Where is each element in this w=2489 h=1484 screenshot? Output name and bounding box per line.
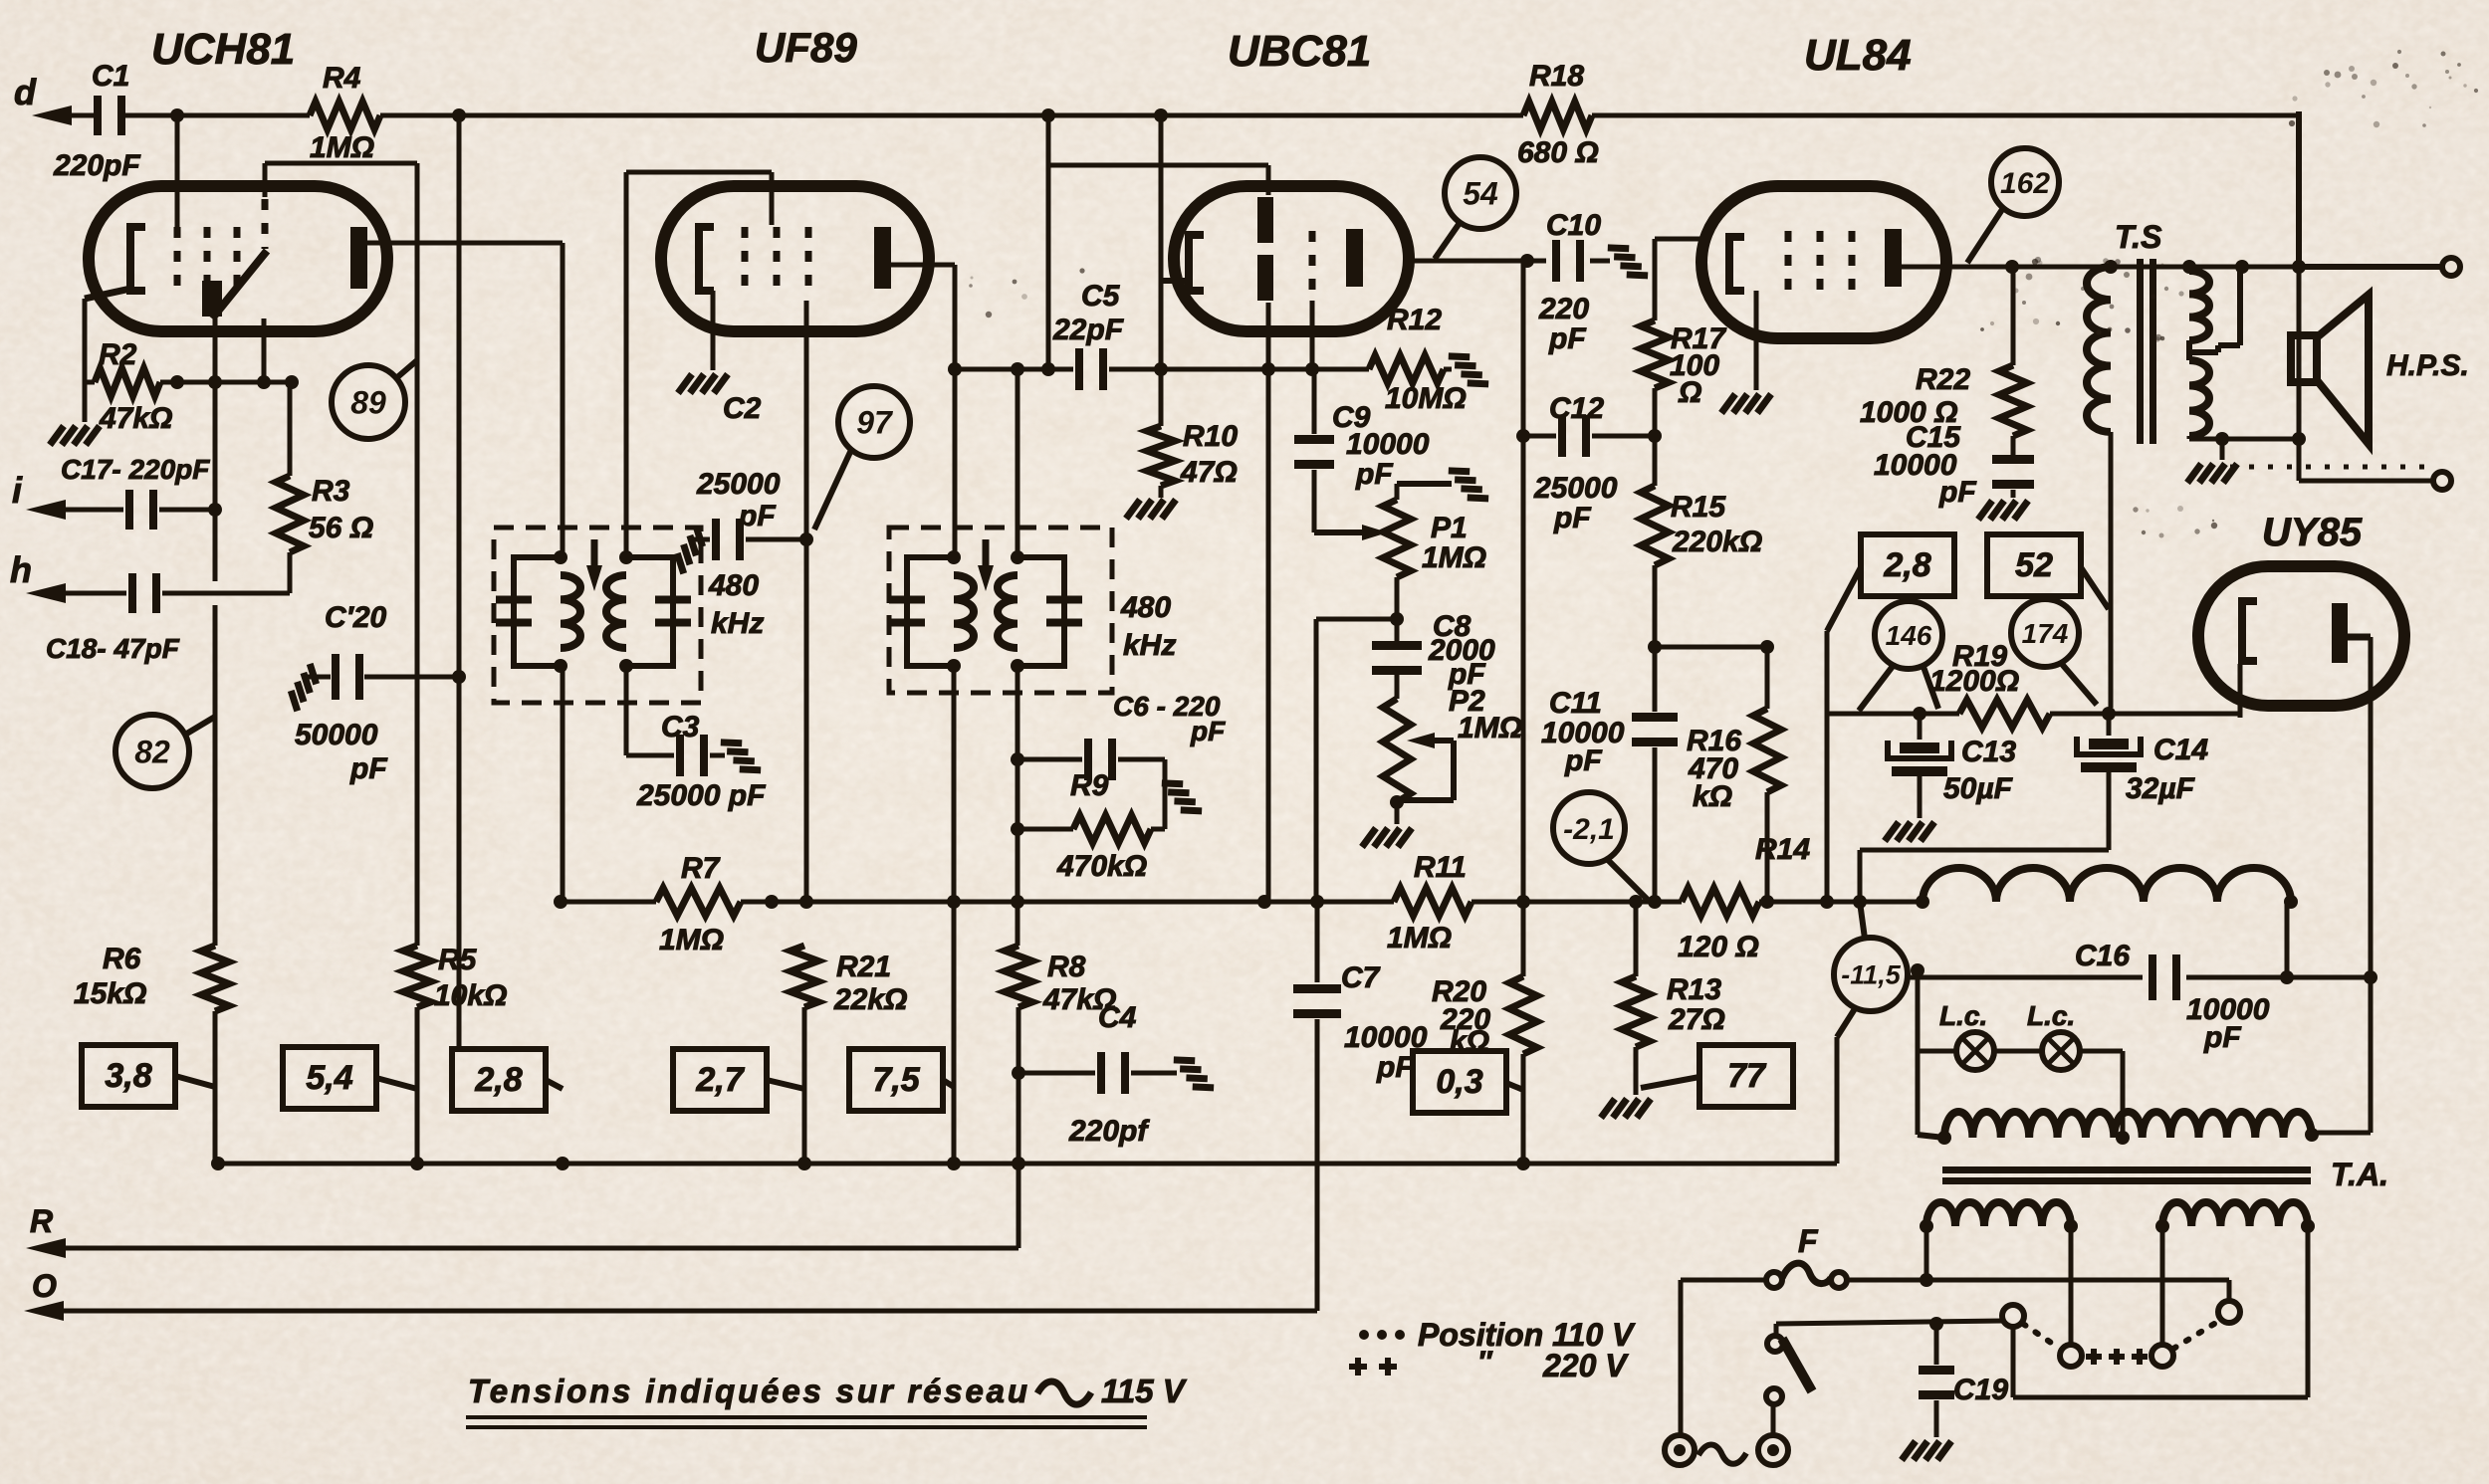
resistor R13 — [1634, 902, 1639, 976]
resistor R17 — [1641, 320, 1669, 388]
svg-text:22kΩ: 22kΩ — [833, 983, 907, 1016]
capacitor C10 — [1590, 259, 1610, 264]
resistor R15 — [1641, 486, 1669, 565]
svg-text:220: 220 — [1538, 293, 1589, 325]
wire diode top line — [1048, 163, 1268, 168]
wire UF89 g1 top line — [626, 170, 772, 175]
svg-text:7,5: 7,5 — [872, 1061, 920, 1099]
wire IF2 right column down — [1016, 369, 1020, 557]
voltage circle 97 — [838, 386, 910, 458]
svg-text:97: 97 — [856, 405, 894, 441]
resistor R21 — [791, 946, 818, 1007]
svg-text:3,8: 3,8 — [105, 1057, 151, 1095]
IF2 primary tuned circuit — [907, 557, 954, 666]
voltage box 5.4 — [283, 1047, 376, 1109]
tube UF89 internals — [699, 227, 714, 291]
capacitor C15 — [1992, 455, 2034, 464]
svg-text:480: 480 — [708, 569, 759, 602]
svg-text:56 Ω: 56 Ω — [309, 512, 373, 544]
svg-text:R4: R4 — [323, 62, 361, 95]
svg-text:470kΩ: 470kΩ — [1056, 850, 1147, 883]
dotted 110V alternative wire — [2230, 465, 2425, 470]
svg-text:pF: pF — [1190, 716, 1226, 746]
svg-text:-2,1: -2,1 — [1563, 813, 1615, 846]
wire IF1 left column continues — [561, 666, 566, 902]
capacitor C20 — [304, 675, 331, 680]
resistor R3 — [288, 382, 293, 476]
svg-text:1MΩ: 1MΩ — [659, 924, 724, 956]
T.A. core — [1942, 1166, 2311, 1173]
anode bar UBC81 — [1346, 229, 1363, 287]
resistor R2 — [85, 380, 95, 385]
voltage box 0.3 — [1413, 1051, 1506, 1113]
svg-text:5,4: 5,4 — [306, 1059, 352, 1097]
svg-text:27Ω: 27Ω — [1668, 1003, 1725, 1036]
svg-text:R12: R12 — [1387, 304, 1442, 336]
svg-text:R2: R2 — [99, 338, 137, 371]
svg-text:L.c.: L.c. — [1939, 1000, 1987, 1031]
svg-text:C17- 220pF: C17- 220pF — [61, 454, 210, 485]
resistor R14 — [1682, 888, 1759, 916]
voltage circle 174 — [2011, 599, 2079, 667]
capacitor C8 — [1372, 641, 1422, 650]
loudspeaker H.P.S. — [2297, 267, 2302, 439]
svg-text:h: h — [10, 549, 32, 590]
wire mains left drop — [1679, 1280, 1684, 1434]
voltage circle 89 — [332, 365, 405, 439]
switch lever — [1771, 1404, 1776, 1435]
svg-text:R5: R5 — [438, 944, 478, 976]
capacitor C19 — [1934, 1324, 1939, 1365]
svg-text:R8: R8 — [1047, 951, 1086, 983]
svg-text:C′20: C′20 — [325, 601, 387, 634]
resistor R7 — [656, 888, 741, 916]
wire terminal line right — [2296, 111, 2302, 267]
svg-text:C14: C14 — [2153, 734, 2208, 766]
half-ground R12 right — [1449, 346, 1488, 393]
resistor R22 — [1999, 365, 2027, 436]
voltage box 2.8 right — [1861, 534, 1954, 596]
svg-text:120 Ω: 120 Ω — [1678, 931, 1759, 963]
svg-text:O: O — [32, 1268, 57, 1304]
wire UL84 anode line — [1902, 265, 2111, 270]
wire cathode lead — [85, 289, 130, 299]
wire anode UCH81 to IF1 — [367, 241, 563, 246]
voltage selector circle 2 — [2069, 1226, 2074, 1345]
resistor R4 — [310, 102, 380, 129]
ground below R2 — [50, 426, 100, 445]
svg-text:220 V: 220 V — [1542, 1348, 1629, 1383]
wire IF2 left column continues to bus — [952, 666, 957, 1164]
svg-text:1200Ω: 1200Ω — [1929, 665, 2019, 698]
capacitor C7 column — [1315, 902, 1320, 982]
wire C14 bottom to heater node — [1860, 848, 2109, 853]
potentiometer P1 — [1383, 500, 1411, 577]
svg-text:pF: pF — [1548, 322, 1586, 355]
voltage circle 162 — [1991, 148, 2059, 216]
IF transformer 2 dashed box — [889, 528, 1112, 693]
voltage circle 54 — [1445, 157, 1516, 229]
svg-text:R11: R11 — [1414, 851, 1467, 884]
svg-text:R14: R14 — [1755, 833, 1810, 866]
voltage box 7.5 — [849, 1049, 943, 1111]
svg-text:10MΩ: 10MΩ — [1385, 382, 1467, 415]
svg-text:C1: C1 — [92, 60, 129, 93]
wire heater column x216 — [213, 318, 218, 581]
resistor R8 — [1005, 946, 1032, 1007]
arrow h output — [26, 583, 66, 603]
svg-text:R3: R3 — [312, 475, 350, 508]
svg-text:kΩ: kΩ — [1693, 780, 1732, 813]
svg-text:R6: R6 — [103, 943, 141, 975]
wire P1 bottom node — [1395, 577, 1400, 643]
capacitor C2 — [692, 537, 710, 542]
svg-text:Ω: Ω — [1678, 376, 1701, 409]
svg-text:1MΩ: 1MΩ — [1458, 712, 1522, 744]
svg-text:1MΩ: 1MΩ — [310, 131, 374, 164]
T.S. secondary — [2187, 267, 2192, 271]
resistor R6 — [201, 946, 229, 1011]
tube UBC81 envelope — [1174, 186, 1409, 331]
capacitor C14 electrolytic — [2107, 714, 2112, 736]
svg-text:89: 89 — [350, 385, 386, 421]
svg-text:2,8: 2,8 — [1883, 546, 1930, 584]
svg-text:50000: 50000 — [295, 719, 378, 751]
legend plus — [1349, 1364, 1367, 1370]
capacitor C5 — [1075, 348, 1083, 390]
ground below R10 — [1126, 500, 1176, 519]
voltage box 77 — [1699, 1045, 1793, 1107]
resistor R16 — [1753, 709, 1781, 792]
capacitor C16 line — [1906, 975, 2143, 980]
wire lamps column — [1916, 970, 1921, 1135]
tube UCH81 internals — [130, 227, 145, 291]
svg-text:174: 174 — [2022, 618, 2069, 649]
svg-text:pF: pF — [738, 500, 776, 532]
wire R19 line y717 — [1827, 712, 1959, 717]
selector dotted links — [2023, 1324, 2060, 1349]
tube UY85 internals — [2242, 601, 2257, 661]
svg-text:kHz: kHz — [1123, 629, 1176, 662]
wire heater/AGC line y906 — [561, 900, 656, 905]
svg-text:77: 77 — [1727, 1057, 1767, 1095]
ground below C15 — [1978, 501, 2028, 520]
wire UY85 anode down to R19 line — [2238, 664, 2243, 718]
svg-text:146: 146 — [1886, 620, 1932, 651]
IF2 secondary tuned circuit — [1018, 557, 1064, 666]
T.A. secondary right — [2162, 1202, 2308, 1226]
svg-text:F: F — [1798, 1223, 1819, 1259]
wire B+ bottom bus y1169 — [218, 1162, 1837, 1166]
selector plus marks — [2086, 1354, 2102, 1360]
ground below C13 — [1885, 822, 1934, 841]
capacitor C12 line — [1521, 261, 1526, 902]
svg-text:R: R — [30, 1203, 53, 1239]
half-ground R9/C6 — [1162, 773, 1202, 820]
svg-text:2,7: 2,7 — [695, 1061, 745, 1099]
resistor R2 — [95, 368, 160, 396]
svg-text:pF: pF — [349, 752, 387, 785]
resistor R10 — [1147, 426, 1175, 486]
wire lamps to T.A. — [2080, 1049, 2123, 1054]
wire switch to selector line — [1774, 1324, 1779, 1337]
wire UY85 cathode down to C16 line — [2346, 634, 2371, 641]
filter choke coil — [1923, 868, 2291, 902]
svg-text:C5: C5 — [1081, 280, 1121, 313]
svg-text:220pF: 220pF — [53, 149, 140, 182]
svg-text:C4: C4 — [1098, 1001, 1137, 1034]
anode bar UF89 — [874, 227, 891, 289]
svg-text:25000 pF: 25000 pF — [636, 779, 766, 812]
resistor R12 — [1369, 355, 1444, 383]
T.S. core — [2137, 259, 2144, 444]
tube UY85 envelope — [2198, 566, 2404, 706]
svg-text:R9: R9 — [1070, 769, 1109, 802]
ground below C19 — [1902, 1441, 1951, 1460]
svg-text:680 Ω: 680 Ω — [1517, 136, 1599, 169]
svg-text:220pf: 220pf — [1068, 1115, 1150, 1148]
tube UF89 envelope — [661, 186, 929, 331]
ground UL84 cathode — [1721, 394, 1771, 413]
print speckles — [2022, 301, 2026, 305]
arrow d — [32, 106, 72, 125]
svg-text:UL84: UL84 — [1804, 31, 1912, 80]
node line y650 — [1655, 645, 1767, 650]
svg-text:R18: R18 — [1529, 60, 1584, 93]
legend dots — [1359, 1330, 1369, 1340]
svg-text:T.A.: T.A. — [2331, 1157, 2388, 1192]
svg-text:UCH81: UCH81 — [151, 25, 295, 74]
svg-text:H.P.S.: H.P.S. — [2386, 349, 2469, 382]
wire top B+ bus — [68, 113, 98, 118]
svg-text:pF: pF — [1938, 476, 1976, 509]
svg-text:P1: P1 — [1431, 512, 1468, 544]
ground T.S. secondary — [2187, 464, 2237, 483]
half-ground C2 left — [670, 527, 710, 573]
anode bar UCH81 — [350, 227, 367, 289]
svg-text:R22: R22 — [1916, 363, 1970, 396]
svg-text:C10: C10 — [1546, 209, 1601, 242]
terminal circle 1 — [2442, 258, 2460, 276]
voltage circle -11.5 — [1834, 938, 1908, 1011]
resistor R15 — [1653, 436, 1658, 486]
voltage box 3.8 — [82, 1045, 175, 1107]
wire UF89 g2 column x810 — [804, 301, 809, 902]
wire UF89 anode — [891, 263, 955, 268]
half-ground P1 top — [1449, 461, 1488, 508]
resistor R16 — [1765, 647, 1770, 709]
IF1 secondary tuned circuit — [626, 557, 673, 666]
svg-text:54: 54 — [1463, 176, 1498, 212]
IF1 primary tuned circuit — [514, 557, 561, 666]
T.S. primary coil — [2087, 267, 2111, 432]
svg-text:UY85: UY85 — [2262, 511, 2363, 554]
wire -11.5 to bottom bus — [1837, 1007, 1856, 1037]
wire R4 right drop x461 — [457, 115, 462, 1049]
IF2 tuning arrow — [983, 539, 990, 577]
wire secondary bottom — [2187, 436, 2192, 439]
IF transformer 1 dashed box — [494, 528, 701, 703]
wire UL84 grid jog — [1655, 237, 1708, 242]
ground below R13 — [1601, 1099, 1651, 1118]
tube UL84 envelope — [1701, 186, 1946, 338]
resistor R18 — [1523, 102, 1592, 129]
tube UL84 internals — [1729, 237, 1744, 291]
resistor R3 — [276, 476, 304, 552]
wire IF1 right column to C3 — [624, 666, 629, 755]
svg-text:C12: C12 — [1549, 392, 1604, 425]
anode bar UL84 — [1885, 229, 1902, 287]
half-ground C3 right — [721, 733, 761, 779]
svg-text:1MΩ: 1MΩ — [1387, 922, 1452, 954]
svg-text:10000: 10000 — [1346, 428, 1430, 461]
wire UL84 cathode ground — [1754, 291, 1759, 390]
wire grid2 top line — [265, 161, 417, 166]
svg-text:″: ″ — [1477, 1346, 1493, 1378]
svg-text:C3: C3 — [661, 711, 700, 743]
svg-text:R13: R13 — [1667, 973, 1721, 1006]
capacitor C9 column — [1312, 369, 1317, 434]
wire UBC81 left column x1166 (R10) — [1159, 115, 1164, 426]
svg-text:10kΩ: 10kΩ — [434, 979, 507, 1012]
resistor R13 — [1622, 976, 1650, 1047]
svg-text:82: 82 — [134, 735, 170, 770]
resistor R11 — [1394, 888, 1471, 916]
svg-text:pF: pF — [1564, 744, 1602, 777]
voltage box 2.7 — [673, 1049, 767, 1111]
voltage circle 82 — [115, 715, 189, 788]
arrow R output — [26, 1238, 66, 1258]
svg-text:pF: pF — [1553, 502, 1591, 534]
wire to terminal 2 — [2297, 439, 2302, 481]
svg-text:-11,5: -11,5 — [1841, 960, 1902, 990]
resistor R5 — [415, 163, 420, 946]
node top-bus junctions — [170, 108, 184, 122]
capacitor C11 — [1653, 647, 1658, 712]
ground UF89 cathode — [678, 374, 728, 393]
wire triode grid drop — [262, 318, 267, 382]
voltage selector circle 3 — [2160, 1226, 2165, 1345]
svg-text:R7: R7 — [681, 852, 721, 885]
resistor R20 — [1509, 976, 1537, 1054]
svg-text:C13: C13 — [1961, 736, 2016, 768]
mains plug terminal 1 — [1665, 1435, 1695, 1465]
svg-text:R10: R10 — [1183, 420, 1238, 453]
voltage selector circle 1 — [2002, 1305, 2024, 1327]
wire grid column down to AGC line — [1266, 369, 1271, 902]
ground below R2 — [83, 382, 88, 422]
svg-text:10000: 10000 — [1344, 1021, 1428, 1054]
svg-text:C7: C7 — [1341, 961, 1381, 994]
voltage box 2.8 — [452, 1049, 546, 1111]
wire left secondary to fuse line — [1924, 1226, 1929, 1280]
ground below P2 — [1362, 828, 1412, 847]
wire UF89 cathode to ground — [711, 291, 716, 370]
wire grid/cathode bottom leads — [1266, 303, 1271, 369]
wire grid1 drop from C1 node — [175, 115, 180, 234]
terminal circle 2 — [2433, 472, 2451, 490]
svg-text:R21: R21 — [836, 951, 891, 983]
svg-text:C19: C19 — [1953, 1374, 2008, 1406]
svg-text:2,8: 2,8 — [474, 1061, 522, 1099]
svg-text:i: i — [12, 470, 23, 511]
voltage circle -2.1 — [1553, 792, 1625, 864]
svg-text:C11: C11 — [1549, 687, 1602, 720]
svg-text:15kΩ: 15kΩ — [74, 977, 146, 1010]
mains plug terminal 2 — [1758, 1435, 1788, 1465]
tube UCH81 envelope — [89, 186, 387, 331]
svg-text:47Ω: 47Ω — [1180, 456, 1238, 489]
wire UY85 cathode to T.A. primary — [2369, 977, 2374, 1133]
svg-text:480: 480 — [1120, 591, 1171, 624]
resistor R9 — [1073, 815, 1151, 843]
resistor R9 — [1018, 827, 1073, 832]
svg-text:R15: R15 — [1671, 491, 1726, 524]
tube UBC81 internals — [1189, 235, 1204, 291]
wire right secondary right end loop — [2306, 1226, 2311, 1397]
svg-text:C18- 47pF: C18- 47pF — [46, 633, 180, 664]
IF1 tuning arrow — [591, 539, 598, 577]
svg-text:C16: C16 — [2075, 940, 2130, 972]
wire UBC81 anode line — [1409, 259, 1546, 264]
svg-text:47kΩ: 47kΩ — [99, 402, 172, 435]
triode grid diagonal — [212, 251, 267, 318]
svg-text:22pF: 22pF — [1052, 314, 1124, 346]
svg-text:25000: 25000 — [1533, 472, 1618, 505]
voltage circle 146 — [1875, 601, 1942, 669]
resistor R5 — [403, 946, 431, 1007]
potentiometer P2 — [1383, 699, 1411, 802]
svg-text:kΩ: kΩ — [1450, 1025, 1489, 1058]
svg-text:pF: pF — [2203, 1021, 2241, 1054]
capacitor C6 — [1018, 757, 1082, 762]
svg-text:d: d — [14, 72, 37, 112]
svg-text:25000: 25000 — [696, 468, 781, 501]
resistor R22 — [2011, 267, 2016, 365]
svg-text:0,3: 0,3 — [1436, 1063, 1482, 1101]
transformer T.A. primary coil — [1944, 1112, 2312, 1138]
arrow O output — [24, 1301, 64, 1321]
capacitor C4 — [1018, 1071, 1095, 1076]
capacitor C13 electrolytic — [1918, 714, 1923, 740]
svg-text:1MΩ: 1MΩ — [1422, 541, 1486, 574]
mains cord squiggle — [1698, 1445, 1746, 1464]
wire fuse line to selector circle 4 — [2227, 1280, 2232, 1300]
half-ground C10 right — [1608, 238, 1648, 285]
capacitor C3 — [626, 753, 674, 758]
voltage box 52 — [1987, 534, 2081, 596]
svg-text:50µF: 50µF — [1943, 772, 2013, 805]
svg-text:52: 52 — [2015, 546, 2053, 584]
resistor R19 — [1959, 700, 2050, 728]
potentiometer P2 — [1395, 673, 1400, 699]
wire detector line y371 — [955, 367, 1073, 372]
T.A. secondary left — [1926, 1202, 2071, 1226]
svg-text:pF: pF — [1376, 1051, 1414, 1084]
potentiometer P1 — [1395, 484, 1400, 500]
svg-text:T.S: T.S — [2115, 219, 2162, 255]
svg-text:UF89: UF89 — [755, 24, 857, 71]
voltage selector circle 4 — [2218, 1301, 2240, 1323]
svg-text:pF: pF — [1355, 458, 1393, 491]
svg-text:L.c.: L.c. — [2027, 1000, 2075, 1031]
svg-text:115 V: 115 V — [1101, 1373, 1188, 1409]
svg-text:162: 162 — [2000, 167, 2050, 200]
arrow i output — [26, 500, 66, 520]
capacitor C1 — [102, 94, 117, 137]
half-ground C20 left — [284, 664, 324, 711]
svg-text:kHz: kHz — [711, 607, 764, 640]
